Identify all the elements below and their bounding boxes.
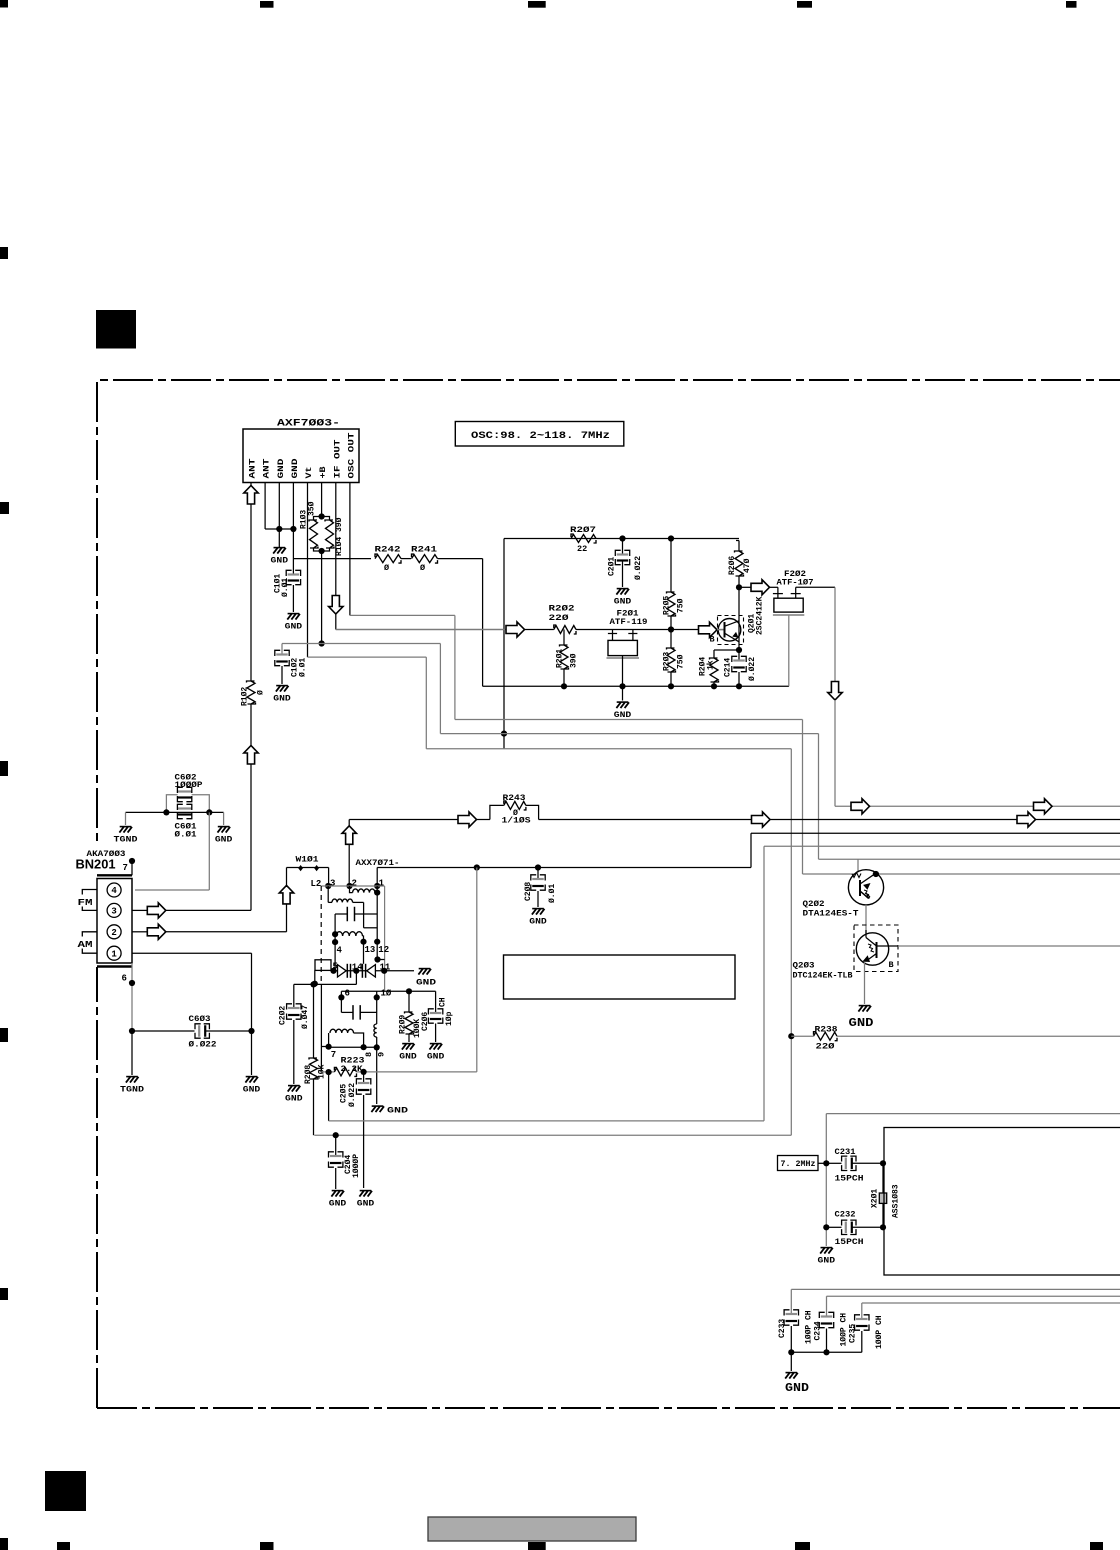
- registration mark top 3: [528, 1, 546, 8]
- junction: [736, 647, 742, 653]
- junction pin10: [374, 994, 380, 1000]
- coil L2 pin9-10: [374, 1024, 377, 1037]
- resistor R238: [814, 1032, 838, 1041]
- registration mark top 4: [797, 1, 812, 8]
- junction: [319, 513, 325, 519]
- capacitor C231: [826, 1162, 841, 1164]
- wire L2 pin1 riser and top line: [376, 868, 378, 887]
- wire F201 center to ground line: [622, 656, 624, 687]
- junction: [668, 535, 674, 541]
- junction pin 6: [129, 980, 135, 986]
- wire ground stub: [790, 1352, 792, 1371]
- wire L2 pin3 to secondary: [327, 886, 329, 902]
- svg-text:Ø.Ø1: Ø.Ø1: [548, 884, 557, 903]
- wire Q203 emitter to ground: [864, 962, 866, 1005]
- resistor R104 (parallel pair right): [322, 517, 330, 521]
- wire ANT run below R102: [250, 704, 252, 746]
- node 7.2MHz label box: [778, 1156, 819, 1171]
- wire arrow to R202: [525, 629, 554, 631]
- svg-text:ANT: ANT: [262, 459, 272, 479]
- junction: [381, 968, 387, 974]
- connector AXF7003 body: [243, 429, 359, 483]
- wire R242 line from GND pin: [293, 558, 371, 560]
- wire R223 line: [321, 1071, 334, 1073]
- ground GND below C205: [360, 1190, 372, 1192]
- svg-text:R241: R241: [411, 545, 437, 555]
- connector BN201 backing: [74, 846, 135, 967]
- registration mark top-left: [0, 0, 8, 8]
- junction: [330, 968, 336, 974]
- wire AXF7003 pin4 GND: [292, 483, 294, 530]
- resistor R242: [375, 554, 401, 563]
- resistor R205: [670, 539, 672, 593]
- wire F202 bottom return: [788, 615, 790, 686]
- svg-text:R238: R238: [815, 1025, 838, 1035]
- node arrow into Q201 base: [699, 622, 718, 637]
- registration mark bottom-left: [0, 1538, 8, 1550]
- svg-text:R2Ø3: R2Ø3: [663, 652, 672, 671]
- svg-text:R2Ø9: R2Ø9: [398, 1015, 407, 1034]
- filter F202 symbol: [770, 586, 778, 588]
- node AM arrow: [147, 924, 166, 939]
- wire R204 C214 tie: [714, 649, 739, 651]
- svg-text:15PCH: 15PCH: [835, 1174, 864, 1184]
- wire pin7 runner: [320, 984, 322, 1072]
- resistor R209: [408, 991, 410, 1012]
- node FM arrow: [147, 903, 166, 918]
- svg-text:GND: GND: [529, 918, 547, 927]
- junction: [374, 956, 380, 962]
- svg-text:C235: C235: [849, 1324, 858, 1343]
- wire Vt drop to R238 node: [790, 749, 792, 1135]
- svg-text:AXX7Ø71-: AXX7Ø71-: [356, 858, 400, 868]
- registration mark bottom 5: [795, 1542, 810, 1550]
- svg-text:13: 13: [365, 945, 376, 955]
- svg-text:R2Ø1: R2Ø1: [556, 649, 565, 668]
- junction pin9: [374, 1044, 380, 1050]
- node arrow into R202: [506, 622, 525, 637]
- capacitor C214: [738, 650, 740, 661]
- BN201 pin 2: [107, 925, 121, 939]
- wire TGND tie line: [126, 811, 224, 813]
- svg-text:1ØØP CH: 1ØØP CH: [840, 1313, 849, 1347]
- wire pin14 net line: [294, 983, 357, 985]
- svg-text:C2Ø8: C2Ø8: [524, 882, 533, 901]
- wire pin1 ground stub: [251, 1031, 253, 1075]
- wire pin1 drop to C603: [251, 953, 253, 1031]
- wire pin10 stub: [376, 991, 378, 997]
- BN201 pin 4: [107, 883, 121, 897]
- wire Q201 collector-emitter rail: [738, 587, 740, 650]
- module boundary dashed: [320, 886, 322, 984]
- junction: [360, 939, 366, 945]
- svg-text:GND: GND: [285, 1095, 303, 1104]
- wire pin3 line to arrow: [132, 909, 147, 911]
- capacitor C208: [537, 868, 539, 880]
- wire bead to pin14 line: [314, 970, 316, 984]
- wire +B vertical lower: [321, 551, 323, 644]
- svg-text:1Ø: 1Ø: [381, 989, 392, 999]
- node FM antenna arrow: [244, 746, 258, 765]
- svg-text:GND: GND: [818, 1257, 836, 1266]
- svg-text:GND: GND: [290, 459, 300, 479]
- wire pin4 GND down to C101: [292, 529, 294, 575]
- junction: [711, 683, 717, 689]
- node arrow up to R243 line: [342, 826, 356, 845]
- junction: [163, 809, 169, 815]
- ground GND below AXF7003: [278, 529, 280, 547]
- svg-text:GND: GND: [285, 623, 303, 632]
- svg-text:ANT: ANT: [248, 459, 258, 479]
- resistor R206: [735, 551, 744, 576]
- svg-text:8: 8: [364, 1052, 374, 1057]
- wire Q203 base line: [877, 945, 899, 947]
- svg-text:FM: FM: [78, 897, 93, 908]
- svg-text:GND: GND: [387, 1107, 408, 1116]
- registration mark bottom 3: [260, 1542, 274, 1550]
- svg-text:IF OUT: IF OUT: [332, 440, 342, 479]
- svg-text:R2Ø5: R2Ø5: [663, 596, 672, 615]
- registration mark left 1: [0, 247, 8, 259]
- junction: [736, 683, 742, 689]
- junction: [501, 731, 507, 737]
- svg-text:R1Ø2: R1Ø2: [241, 687, 250, 706]
- capacitor C601: [178, 807, 192, 809]
- svg-text:Ø.Ø22: Ø.Ø22: [348, 1083, 357, 1107]
- wire R243 to arrow: [539, 819, 752, 821]
- wire R208 to C204 line: [313, 1079, 315, 1135]
- junction: [668, 683, 674, 689]
- junction: [326, 1069, 332, 1075]
- node IF OUT arrow down: [329, 596, 343, 615]
- wire C234 feed line: [827, 1295, 1120, 1297]
- wire TGND stub: [125, 812, 127, 825]
- svg-text:47Ø: 47Ø: [743, 558, 752, 573]
- registration mark left 4: [0, 1028, 8, 1042]
- svg-text:C2Ø2: C2Ø2: [279, 1006, 288, 1025]
- svg-text:1Øp: 1Øp: [445, 1011, 454, 1026]
- svg-text:Vt: Vt: [304, 467, 314, 479]
- svg-text:BN201: BN201: [76, 858, 116, 872]
- wire Vt route: [308, 656, 427, 658]
- junction: [129, 1028, 135, 1034]
- connector BN201 body: [97, 879, 132, 964]
- junction: [535, 864, 541, 870]
- wire pin6 TGND column: [131, 1031, 133, 1075]
- wire between R242 R241: [401, 558, 411, 560]
- junction: [619, 683, 625, 689]
- svg-text:GND: GND: [276, 459, 286, 479]
- wire pin2 line: [166, 931, 287, 933]
- junction: [374, 890, 380, 896]
- wire varactor feed column: [384, 886, 386, 971]
- varactor diode D2: [361, 964, 363, 978]
- svg-text:R242: R242: [375, 545, 401, 555]
- svg-text:Ø: Ø: [256, 690, 265, 695]
- svg-text:C234: C234: [813, 1321, 822, 1340]
- ground GND below C102: [276, 685, 288, 687]
- svg-text:B: B: [889, 960, 894, 970]
- schematic sheet dash-dot border: [97, 380, 1120, 1408]
- wire to C204 line: [314, 1134, 791, 1136]
- junction pin 7: [129, 858, 135, 864]
- AM bracket: [82, 932, 97, 953]
- filter F201 symbol: [608, 633, 617, 635]
- registration mark left 2: [0, 502, 9, 514]
- junction: [619, 535, 625, 541]
- wire R209 feed line: [341, 990, 435, 992]
- registration mark bottom 2: [57, 1542, 70, 1550]
- wire C602 side loops: [166, 795, 177, 813]
- junction: [736, 584, 742, 590]
- svg-text:75Ø: 75Ø: [677, 654, 686, 669]
- svg-text:GND: GND: [273, 695, 291, 704]
- wire pin1 line: [132, 952, 252, 954]
- wire pin2 line to arrow: [132, 931, 147, 933]
- capacitor L2 pins 6-10: [340, 997, 342, 1012]
- svg-text:Ø.Ø1: Ø.Ø1: [175, 830, 197, 840]
- node OSC frequency label box: [455, 422, 624, 447]
- wire bus line y819: [770, 819, 1120, 821]
- capacitor C232: [826, 1226, 841, 1228]
- wire 7.2MHz node riser: [826, 1113, 1120, 1115]
- svg-text:GND: GND: [399, 1053, 417, 1062]
- wire L2 pins tie line: [321, 885, 384, 887]
- junction: [310, 981, 316, 987]
- svg-text:+B: +B: [318, 467, 328, 479]
- capacitor C102: [282, 643, 322, 645]
- ground GND below F201: [617, 701, 629, 703]
- resistor R223: [334, 1067, 356, 1076]
- registration mark top 2: [260, 1, 274, 8]
- wire bus line y874: [803, 873, 1120, 875]
- wire module return riser: [476, 868, 478, 1072]
- resistor R208: [313, 984, 315, 1058]
- svg-text:GND: GND: [271, 557, 289, 566]
- svg-text:Ø: Ø: [420, 563, 425, 573]
- resistor R204: [713, 650, 715, 658]
- wire bus line y833: [751, 832, 1120, 834]
- wire pin4 drop: [334, 942, 336, 971]
- junction: [319, 640, 325, 646]
- wire bus line y859: [819, 858, 1120, 860]
- wire C233 feed line: [791, 1288, 1120, 1290]
- junction: [880, 1224, 886, 1230]
- node arrow on R243 line: [458, 812, 477, 827]
- wire bus line y806: [835, 805, 1120, 807]
- wire OSC OUT route: [350, 614, 455, 616]
- svg-text:DTA124ES-T: DTA124ES-T: [803, 909, 859, 919]
- svg-text:R2Ø8: R2Ø8: [304, 1065, 313, 1084]
- wire C601 junction to BN201 pin4: [208, 812, 210, 890]
- wire +B route: [322, 643, 441, 645]
- ground GND below C232: [821, 1247, 833, 1249]
- ground GND below C101: [288, 613, 300, 615]
- transistor Q201 dashed outline: [718, 616, 744, 645]
- svg-text:TGND: TGND: [114, 836, 138, 845]
- wire C201 to ground: [622, 561, 624, 588]
- capacitor C101: [288, 573, 300, 575]
- wire Q202 base stub: [857, 859, 859, 872]
- wire pin9 ground column: [376, 1047, 378, 1104]
- wire AM riser to W101: [286, 868, 288, 886]
- wire AXF7003 GND pins bar: [265, 528, 293, 530]
- junction varactor center: [353, 968, 359, 974]
- svg-text:6: 6: [345, 989, 350, 999]
- wire OSC output to bus: [834, 700, 836, 806]
- wire pin7 stub: [131, 861, 133, 875]
- svg-text:1k: 1k: [707, 660, 716, 670]
- junction: [374, 939, 380, 945]
- svg-text:4: 4: [337, 946, 343, 956]
- svg-text:GND: GND: [215, 836, 233, 845]
- svg-text:2SC2412K: 2SC2412K: [756, 596, 765, 635]
- svg-text:R2Ø2: R2Ø2: [549, 604, 575, 614]
- svg-text:Ø.Ø22: Ø.Ø22: [634, 556, 643, 580]
- svg-text:R2Ø6: R2Ø6: [728, 556, 737, 575]
- wire pin7-8-9 tie: [329, 1046, 377, 1048]
- wire into R243: [477, 819, 490, 821]
- wire pin3 line: [166, 909, 251, 911]
- junction: [319, 548, 325, 554]
- svg-text:3: 3: [111, 907, 116, 917]
- junction: [561, 683, 567, 689]
- wire C233-C235 ground tie: [791, 1351, 862, 1353]
- svg-text:GND: GND: [329, 1200, 347, 1209]
- svg-text:2: 2: [111, 928, 116, 938]
- transistor Q201: [718, 619, 741, 642]
- svg-text:9: 9: [376, 1052, 386, 1057]
- wire pin10 to coil: [376, 997, 378, 1024]
- wire R223 right: [357, 1071, 477, 1073]
- junction: [312, 981, 318, 987]
- svg-text:GND: GND: [416, 979, 436, 988]
- svg-text:DTC124EK-TLB: DTC124EK-TLB: [793, 971, 853, 981]
- transistor Q202: [848, 870, 883, 905]
- svg-text:GND: GND: [427, 1053, 445, 1062]
- svg-text:C6Ø3: C6Ø3: [189, 1014, 211, 1024]
- transistor Q203 dashed outline: [854, 925, 898, 972]
- registration mark bottom 4: [528, 1542, 546, 1550]
- svg-text:22Ø: 22Ø: [549, 613, 569, 623]
- junction: [361, 1069, 367, 1075]
- svg-text:7. 2MHz: 7. 2MHz: [781, 1159, 816, 1169]
- connector BN201 shield bar top: [97, 874, 132, 876]
- wire R243 line left: [349, 819, 458, 821]
- svg-text:OSC:98. 2~118. 7MHz: OSC:98. 2~118. 7MHz: [471, 430, 610, 442]
- svg-text:W1Ø1: W1Ø1: [296, 855, 319, 865]
- wire pin12 jog: [377, 959, 384, 961]
- crystal X201: [882, 1163, 884, 1193]
- ground GND below C603: [246, 1076, 258, 1078]
- wire C603 left lead: [132, 1030, 195, 1032]
- node ANT input arrow: [244, 486, 258, 505]
- svg-text:CH: CH: [438, 997, 447, 1007]
- wire Vt vertical: [307, 483, 309, 658]
- wire Q201 collector to arrow: [739, 586, 751, 588]
- wire AXF7003 pin2 ANT to ground bar: [264, 483, 266, 530]
- svg-text:Q2Ø3: Q2Ø3: [793, 961, 815, 971]
- wire ground stub: [622, 686, 624, 700]
- ground GND pin9: [372, 1105, 384, 1107]
- wire W101 jumper: [287, 867, 329, 869]
- wire module output A: [328, 1072, 330, 1121]
- svg-text:AXF7ØØ3-: AXF7ØØ3-: [277, 418, 340, 430]
- capacitor C204 junction: [333, 1132, 339, 1138]
- node arrow on bus y806 left: [851, 799, 870, 814]
- wire C101 to ground: [292, 585, 294, 612]
- wire W101 to L2 pin3: [328, 868, 330, 887]
- svg-text:AM: AM: [78, 939, 93, 950]
- wire bus line y941 Q203 base: [898, 945, 1120, 947]
- svg-text:Ø.Ø1: Ø.Ø1: [298, 658, 307, 677]
- svg-text:R2Ø7: R2Ø7: [570, 525, 596, 535]
- wire top line corner to y833 bus: [750, 833, 752, 867]
- resistor R103 (parallel pair left): [314, 517, 322, 521]
- wire R238 line to right: [791, 1035, 813, 1037]
- wire OSC OUT vertical: [349, 483, 351, 616]
- connector BN201 shield bar bottom: [97, 965, 132, 967]
- svg-text:ATF-1Ø7: ATF-1Ø7: [777, 578, 814, 588]
- section index square: [96, 310, 136, 349]
- ground GND below C204: [332, 1190, 344, 1192]
- ground GND below R209: [402, 1043, 414, 1045]
- svg-text:GND: GND: [785, 1381, 809, 1395]
- svg-text:12: 12: [378, 945, 389, 955]
- svg-text:7: 7: [331, 1050, 336, 1060]
- resistor R201: [563, 630, 565, 646]
- svg-text:ATF-119: ATF-119: [610, 617, 648, 627]
- wire C235 feed line: [862, 1302, 1120, 1304]
- svg-text:7: 7: [123, 863, 128, 873]
- wire pin13 drop to varactor: [363, 942, 365, 964]
- capacitor C205: [363, 1072, 365, 1083]
- wire R202 to F201: [576, 629, 699, 631]
- wire F202 output to right: [796, 586, 835, 588]
- coil L2 pins7-8: [328, 1033, 330, 1047]
- wire RF ground line: [483, 685, 789, 687]
- wire pin6 stub: [340, 991, 342, 997]
- junction: [406, 988, 412, 994]
- ground GND below C233: [786, 1372, 798, 1374]
- svg-text:L2: L2: [311, 879, 322, 889]
- wire ANT vertical run: [250, 505, 252, 682]
- capacitor C206: [435, 991, 437, 1013]
- node arrow on R243 line mid: [752, 812, 771, 827]
- wire pin6 down: [131, 963, 133, 1031]
- wire IF OUT to base line: [335, 614, 337, 630]
- svg-text:GND: GND: [614, 711, 632, 720]
- svg-text:C2Ø1: C2Ø1: [608, 557, 617, 576]
- svg-text:75Ø: 75Ø: [677, 598, 686, 613]
- BN201 pin 3: [107, 903, 121, 917]
- wire R206 to Q201 collector: [738, 576, 740, 587]
- junction: [332, 931, 338, 937]
- svg-text:1ØØØP: 1ØØØP: [175, 780, 203, 790]
- junction: [290, 526, 296, 532]
- ground GND below C202: [288, 1085, 300, 1087]
- svg-text:Ø.Ø22: Ø.Ø22: [189, 1040, 217, 1050]
- svg-text:B: B: [710, 635, 715, 645]
- wire Q202 collector to Q203: [865, 905, 867, 933]
- svg-text:OSC OUT: OSC OUT: [347, 433, 357, 479]
- registration mark left 5: [0, 1288, 8, 1300]
- node arrow on bus y806 right: [1034, 799, 1053, 814]
- junction: [823, 1224, 829, 1230]
- svg-text:ASS1Ø83: ASS1Ø83: [892, 1184, 901, 1218]
- svg-text:Ø.Ø22: Ø.Ø22: [748, 657, 757, 681]
- coil L2 tertiary: [336, 932, 363, 936]
